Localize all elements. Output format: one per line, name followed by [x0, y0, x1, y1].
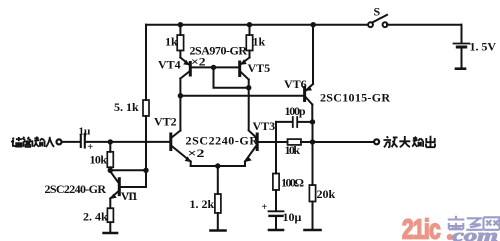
capacitor C2 100p — [276, 117, 311, 127]
svg-text:20k: 20k — [317, 187, 336, 201]
svg-text:2SC2240-GR: 2SC2240-GR — [45, 182, 107, 196]
node bias right — [143, 168, 148, 173]
node bias left — [108, 168, 113, 173]
wire VT1 emitter down — [109, 199, 111, 209]
svg-text:1k: 1k — [165, 35, 178, 49]
node rail-R3 junction — [178, 22, 183, 27]
wire VT1 collector up — [109, 170, 111, 172]
node rail-R4 junction — [247, 22, 252, 27]
transistor VT6 2SC1015-GR (PNP) — [305, 84, 313, 105]
svg-text:1. 5V: 1. 5V — [470, 40, 497, 54]
wire top power rail left segment — [146, 24, 368, 26]
label huatong shuru (microphone input) vector glyphs — [11, 137, 54, 147]
svg-text:10μ: 10μ — [283, 210, 302, 224]
svg-text:VT5: VT5 — [248, 61, 271, 75]
battery B1 1.5V — [454, 44, 470, 69]
resistor R5 1.2k — [215, 194, 221, 213]
wire 1k to VT5 emitter — [249, 51, 251, 58]
svg-text:+: + — [87, 142, 93, 153]
svg-text:21ic: 21ic — [402, 214, 440, 241]
glyph shu2 — [412, 137, 423, 147]
svg-text:S: S — [374, 5, 381, 19]
terminal output circle — [374, 139, 379, 144]
wire VT2 collector up — [179, 96, 181, 131]
wire output down to 20k — [312, 142, 314, 185]
wire 1.2k to ground — [217, 213, 219, 230]
node VT5.C base tie — [246, 85, 251, 90]
svg-text:VT1: VT1 — [121, 189, 138, 203]
wire 100p left down to feedback node — [275, 122, 277, 174]
wire VT5 collector down — [248, 80, 250, 88]
wire input to cap — [62, 141, 80, 143]
svg-text:1. 2k: 1. 2k — [190, 197, 215, 211]
wire VT4 base to mirror tie — [192, 66, 214, 68]
wire left rail column down to 5.1k — [145, 25, 147, 100]
node rail-VT6 junction — [311, 22, 316, 27]
svg-text:+: + — [262, 202, 268, 213]
resistor R4 1k right — [246, 35, 252, 51]
svg-text:100Ω: 100Ω — [281, 176, 304, 190]
wire top rail right segment to battery — [387, 24, 462, 26]
transistor VT5 2SA970-GR (PNP) — [240, 58, 250, 80]
node input junction — [108, 139, 113, 144]
wire VT6 emitter up to rail — [312, 25, 314, 84]
wire rail to right 1k — [249, 25, 251, 35]
wire VT6 collector down — [311, 105, 313, 122]
wire VT2 emitter down — [190, 162, 192, 167]
ground 10u — [269, 229, 283, 232]
wire VT5.C to VT3 collector (crosses y=95.7 line) — [248, 88, 250, 130]
node tail junction — [215, 163, 220, 168]
terminal input circle — [57, 139, 62, 144]
wire common emitter — [191, 165, 245, 167]
svg-text:VT4: VT4 — [158, 58, 181, 72]
wire tail to 1.2k — [217, 166, 219, 194]
wire 20k to ground — [312, 202, 314, 230]
svg-text:2SC1015-GR: 2SC1015-GR — [320, 91, 390, 105]
svg-text:5. 1k: 5. 1k — [114, 100, 139, 114]
wire 2.4k to ground — [109, 222, 111, 232]
svg-text:com: com — [452, 226, 498, 241]
capacitor C1 1u — [81, 134, 111, 148]
ground 2.4k — [104, 232, 117, 235]
wire input node to VT2 base — [110, 141, 169, 143]
wire 5.1k to bias node (crosses input line) — [145, 116, 147, 170]
resistor R6 10k feedback — [288, 139, 302, 145]
wire battery drop — [461, 25, 463, 43]
wire VT1 base loop — [121, 170, 146, 187]
label fangda shuchu (amplified output) vector glyphs — [384, 136, 436, 147]
ground tail — [211, 229, 226, 232]
svg-text:×2: ×2 — [191, 55, 206, 69]
glyph hua — [11, 137, 22, 147]
svg-text:×2: ×2 — [188, 146, 205, 160]
resistor R2 5.1k — [143, 100, 149, 116]
glyph fang — [384, 136, 398, 147]
glyph da — [399, 136, 410, 147]
wire input node down to 10k — [109, 142, 111, 152]
node mirror base tie — [211, 65, 216, 70]
svg-text:VT6: VT6 — [284, 77, 307, 91]
ground 20k — [305, 229, 321, 232]
svg-text:1μ: 1μ — [79, 126, 92, 138]
resistor R8 20k — [309, 185, 315, 202]
wire 10k to output node — [301, 141, 313, 143]
wire 1k to VT4 emitter — [179, 51, 181, 58]
wire bias node horizontal — [110, 169, 146, 171]
node output mid — [310, 139, 315, 144]
resistor R3 1k left — [177, 35, 183, 51]
svg-text:1k: 1k — [253, 35, 266, 49]
resistor R9 2.4k — [107, 208, 113, 222]
wire mirror output to VT6 base — [180, 95, 303, 97]
capacitor C3 10u electrolytic — [269, 211, 284, 229]
glyph shu — [34, 137, 45, 147]
glyph tong — [23, 137, 33, 147]
glyph ru — [46, 137, 54, 147]
switch S — [368, 15, 387, 27]
transistor VT4 2SA970-GR (PNP) — [180, 58, 190, 79]
svg-text:VT3: VT3 — [253, 119, 276, 133]
svg-text:10k: 10k — [90, 153, 108, 167]
wire rail to left 1k — [179, 25, 181, 35]
resistor R7 100ohm — [273, 174, 279, 191]
resistor R1 10k input — [107, 152, 113, 168]
transistor VT2 2SC2240-GR (NPN) — [171, 131, 191, 163]
wire 10k to bias node — [109, 167, 111, 170]
transistor VT3 2SC2240-GR (NPN) — [245, 131, 257, 163]
glyph chu — [426, 136, 435, 147]
wire VT3 base to 10k — [259, 141, 288, 143]
transistor VT1 2SC2240-GR (NPN) diode-connected — [110, 172, 119, 200]
wire mirror bases down to VT5 collector — [214, 67, 249, 87]
wire 100ohm to 10u — [275, 190, 277, 211]
wire output to terminal — [313, 141, 375, 143]
node VT4.C / VT2.C — [178, 93, 183, 98]
watermark 21ic.com dianziwang — [402, 214, 500, 241]
node output top (100p right) — [310, 119, 315, 124]
svg-text:100p: 100p — [285, 104, 306, 118]
svg-text:VT2: VT2 — [154, 115, 177, 129]
svg-text:10k: 10k — [285, 143, 301, 157]
wire output node down — [312, 122, 314, 142]
wire VT3 emitter down — [244, 162, 246, 167]
wire VT4 collector down — [179, 79, 181, 96]
svg-text:2. 4k: 2. 4k — [83, 210, 108, 224]
wire VT5 base to mirror tie — [214, 66, 239, 68]
